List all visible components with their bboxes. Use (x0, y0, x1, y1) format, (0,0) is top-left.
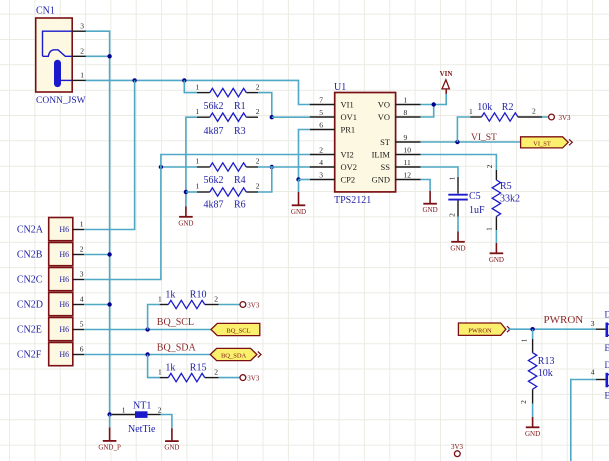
svg-text:TPS2121: TPS2121 (334, 195, 371, 206)
port VI_ST (521, 137, 573, 148)
svg-text:2: 2 (256, 82, 260, 91)
svg-text:1: 1 (404, 95, 408, 104)
svg-text:2: 2 (214, 295, 218, 304)
svg-text:2: 2 (214, 368, 218, 377)
pin 3 of CN2C (73, 270, 84, 280)
pin 3 of Q (cut off) (591, 319, 606, 329)
wire to R1 pin1 (184, 80, 197, 92)
svg-text:2: 2 (485, 164, 494, 168)
wire SS to C5 (421, 167, 458, 177)
svg-text:H6: H6 (59, 325, 69, 334)
pin 1 of CN1 (72, 71, 86, 81)
svg-text:ST: ST (380, 137, 391, 147)
svg-text:1: 1 (469, 107, 473, 116)
svg-text:1k: 1k (165, 290, 175, 301)
svg-text:D: D (605, 360, 609, 370)
wire R2 pin2 to 3V3 (542, 116, 548, 118)
net-tie NT1 (112, 401, 162, 435)
junction (159, 165, 163, 169)
pin 4 of CN2D (73, 295, 84, 305)
svg-text:R10: R10 (190, 290, 207, 301)
junction GND_P node (107, 412, 111, 416)
connector CN2A H6 (17, 218, 73, 241)
power 3V3 (240, 302, 260, 310)
svg-text:BQ_SCL: BQ_SCL (226, 328, 250, 335)
svg-text:PWRON: PWRON (544, 314, 584, 326)
junction (530, 327, 534, 331)
pin 2 of CN2B (73, 245, 84, 255)
svg-text:4: 4 (591, 368, 595, 377)
wire VO pin8 join (421, 105, 434, 118)
connector CN2D H6 (17, 293, 73, 316)
wire VO pin1 to VIN (421, 94, 447, 105)
svg-text:4k87: 4k87 (204, 200, 224, 211)
wire R10 pin1 to BQ_SCL (148, 305, 160, 330)
junction (132, 78, 136, 82)
svg-text:2: 2 (80, 245, 84, 254)
svg-text:4: 4 (80, 295, 84, 304)
svg-text:3V3: 3V3 (247, 375, 260, 383)
port BQ_SDA (210, 348, 261, 360)
svg-text:10k: 10k (477, 102, 492, 113)
svg-text:CN2E: CN2E (17, 325, 42, 336)
svg-text:OV2: OV2 (341, 162, 358, 172)
svg-text:2: 2 (80, 47, 84, 56)
svg-text:CN2D: CN2D (17, 300, 43, 311)
svg-text:CN2F: CN2F (17, 350, 42, 361)
pin 3 CP2 of U1 (310, 170, 355, 184)
wire CN1 pin3 to GND_P rail (86, 31, 110, 414)
svg-text:H6: H6 (59, 250, 69, 259)
svg-text:2: 2 (256, 182, 260, 191)
ground (450, 232, 465, 253)
ground (423, 191, 438, 214)
svg-text:CN1: CN1 (36, 6, 55, 17)
svg-text:H6: H6 (59, 275, 69, 284)
junction (145, 352, 149, 356)
port BQ_SCL (211, 323, 260, 335)
wire pin4 down to sheet edge (571, 380, 596, 461)
wire NT1 pin1 to GND_P (109, 415, 111, 428)
svg-text:ILIM: ILIM (372, 150, 391, 160)
svg-text:H6: H6 (59, 300, 69, 309)
svg-text:SS: SS (381, 162, 391, 172)
svg-text:R5: R5 (500, 181, 512, 192)
junction (455, 140, 459, 144)
wire R6 pin1 (186, 191, 197, 193)
svg-text:R1: R1 (234, 101, 246, 112)
svg-text:1: 1 (520, 338, 529, 342)
svg-text:R6: R6 (234, 200, 246, 211)
svg-text:1: 1 (196, 182, 200, 191)
svg-text:VI_ST: VI_ST (471, 133, 497, 143)
wire PWRON net (508, 328, 596, 330)
junction (296, 177, 300, 181)
svg-text:BQ_SCL: BQ_SCL (157, 317, 194, 328)
connector CN2E H6 (17, 318, 73, 341)
wire R15 pin1 to BQ_SDA (148, 355, 160, 378)
wire R15 pin2 to 3V3 (219, 377, 240, 379)
svg-text:GND: GND (291, 208, 306, 216)
resistor R5 33k2 (485, 164, 521, 231)
svg-text:6: 6 (319, 120, 323, 129)
svg-text:CN2A: CN2A (17, 225, 44, 236)
svg-text:4k87: 4k87 (204, 126, 224, 137)
pin 4 OV2 of U1 (310, 158, 357, 172)
pin 6 of CN2F (73, 345, 84, 355)
svg-text:VO: VO (378, 112, 390, 122)
svg-text:R2: R2 (502, 102, 514, 113)
svg-text:R3: R3 (234, 126, 246, 137)
svg-text:R15: R15 (190, 363, 207, 374)
svg-text:VI2: VI2 (341, 150, 354, 160)
svg-text:1: 1 (196, 82, 200, 91)
pin 2 VI2 of U1 (310, 145, 354, 159)
svg-text:2: 2 (256, 107, 260, 116)
svg-text:56k2: 56k2 (204, 101, 224, 112)
resistor R6 4k87 (196, 182, 260, 211)
connector CN1 CONN_JSW (36, 6, 86, 107)
svg-text:33k2: 33k2 (500, 193, 520, 204)
op-amp U1 TPS2121 body (334, 82, 396, 206)
wire NT1 pin2 to GND (161, 415, 172, 429)
wire R10 pin2 to 3V3 (219, 304, 240, 306)
wire R3 pin1 to GND rail (186, 117, 197, 206)
svg-text:2: 2 (532, 107, 536, 116)
wire ILIM to R5 (421, 155, 497, 171)
svg-text:6: 6 (80, 345, 84, 354)
wire BQ_SCL net (84, 329, 211, 331)
resistor R1 56k2 (196, 82, 260, 112)
svg-text:2: 2 (158, 406, 162, 415)
svg-text:2: 2 (448, 213, 457, 217)
junction (145, 327, 149, 331)
pin 11 SS of U1 (381, 158, 421, 172)
svg-text:11: 11 (404, 158, 411, 167)
pin 5 of CN2E (73, 320, 84, 330)
wire PR1 down to CP2 (299, 130, 310, 180)
svg-text:3: 3 (319, 170, 323, 179)
svg-text:OV1: OV1 (341, 112, 358, 122)
svg-text:9: 9 (404, 133, 408, 142)
svg-text:1k: 1k (165, 363, 175, 374)
svg-text:10: 10 (404, 145, 412, 154)
wire R1 pin2 down (258, 93, 272, 118)
resistor R13 10k (519, 338, 554, 404)
transistor Q upper (cut off at edge) (605, 310, 609, 354)
resistor R4 56k2 (196, 157, 260, 187)
pin 7 VI1 of U1 (310, 95, 354, 109)
svg-text:CONN_JSW: CONN_JSW (36, 96, 86, 106)
ground (291, 192, 306, 216)
svg-text:GND_P: GND_P (98, 443, 121, 451)
connector CN2B H6 (17, 243, 73, 266)
svg-text:10k: 10k (538, 368, 553, 379)
pin 4 of Q (cut off) (591, 368, 606, 380)
svg-text:CN2C: CN2C (17, 275, 43, 286)
pin 1 VO of U1 (378, 95, 421, 109)
svg-text:56k2: 56k2 (204, 175, 224, 186)
ground (178, 207, 193, 228)
wire ST net (421, 141, 521, 143)
svg-text:D: D (605, 310, 609, 320)
wire OV1 net to U1 pin5 (272, 116, 310, 118)
svg-text:GND: GND (164, 444, 179, 452)
svg-text:U1: U1 (334, 82, 346, 93)
svg-text:BQ_SDA: BQ_SDA (221, 353, 247, 360)
svg-text:1: 1 (485, 227, 494, 231)
svg-text:1: 1 (448, 176, 457, 180)
svg-text:R4: R4 (234, 175, 246, 186)
junction (182, 78, 186, 82)
svg-text:3V3: 3V3 (559, 114, 572, 122)
resistor R15 1k (158, 363, 219, 382)
junction (270, 115, 274, 119)
svg-text:2: 2 (519, 400, 528, 404)
pin 10 ILIM of U1 (372, 145, 421, 159)
svg-text:PR1: PR1 (341, 125, 356, 135)
resistor R2 10k (469, 102, 542, 121)
svg-text:1uF: 1uF (469, 205, 485, 216)
svg-text:CN2B: CN2B (17, 250, 43, 261)
svg-text:5: 5 (80, 320, 84, 329)
wire C5 to gnd (457, 217, 459, 232)
svg-text:5: 5 (319, 108, 323, 117)
svg-text:GND: GND (489, 256, 504, 264)
svg-text:BQ_SDA: BQ_SDA (157, 343, 197, 354)
svg-text:1: 1 (80, 71, 84, 80)
svg-text:3: 3 (80, 22, 84, 31)
svg-text:GND: GND (450, 244, 465, 252)
svg-text:2: 2 (319, 145, 323, 154)
wire CN2C pin3 to U1 VI2 (84, 155, 310, 280)
wire CN2D pin4 (84, 304, 110, 306)
power port VIN (440, 70, 453, 94)
pin 8 VO of U1 (378, 108, 421, 122)
svg-text:1: 1 (196, 157, 200, 166)
wire VIN net CN1 pin1 to U1 VI1 (86, 80, 310, 104)
svg-text:4: 4 (319, 158, 323, 167)
resistor R3 4k87 (196, 107, 260, 137)
svg-text:VI_ST: VI_ST (533, 140, 551, 147)
svg-text:3V3: 3V3 (451, 443, 464, 451)
power 3V3 (549, 114, 571, 122)
svg-text:H6: H6 (59, 350, 69, 359)
wire OV2 net to U1 pin4 (258, 166, 310, 168)
svg-text:1: 1 (80, 220, 84, 229)
svg-text:1: 1 (196, 107, 200, 116)
pin 5 OV1 of U1 (310, 108, 357, 122)
wire to CP2 pin (299, 179, 310, 181)
wire VI2 to R4 pin1 (161, 166, 197, 168)
transistor Q lower (cut off at edge) (605, 360, 609, 401)
resistor R10 1k (158, 290, 219, 309)
wire BQ_SDA net (84, 354, 210, 356)
connector CN2C H6 (17, 268, 73, 291)
junction (107, 302, 111, 306)
junction (432, 102, 436, 106)
svg-text:1: 1 (122, 406, 126, 415)
wire up to R2 pin1 (457, 117, 470, 142)
wire CP2 to gnd (298, 180, 300, 193)
svg-text:H6: H6 (59, 225, 69, 234)
pin 6 PR1 of U1 (310, 120, 355, 134)
power 3V3 bottom (451, 443, 464, 457)
power 3V3 (240, 375, 260, 383)
svg-text:E: E (605, 390, 609, 400)
wire CN2B pin2 (84, 254, 110, 256)
svg-text:R13: R13 (538, 356, 555, 367)
svg-text:VO: VO (378, 100, 390, 110)
pin 12 GND of U1 (372, 170, 421, 184)
svg-text:GND: GND (423, 206, 438, 214)
svg-text:2: 2 (256, 157, 260, 166)
junction (270, 165, 274, 169)
wire U1 GND pin12 (421, 180, 431, 192)
svg-text:7: 7 (319, 95, 323, 104)
svg-text:8: 8 (404, 108, 408, 117)
svg-text:NT1: NT1 (133, 401, 151, 412)
junction (107, 54, 111, 58)
svg-text:VI1: VI1 (341, 100, 354, 110)
wire PWRON to R13 (532, 329, 534, 339)
junction (107, 252, 111, 256)
pin 9 ST of U1 (380, 133, 421, 147)
wire R6 pin2 up to OV2 (258, 167, 272, 192)
port PWRON (458, 323, 510, 335)
pin 2 of CN1 (72, 47, 86, 57)
svg-text:3: 3 (591, 319, 595, 328)
svg-text:3: 3 (80, 270, 84, 279)
wire CN1 pin2 (86, 55, 110, 57)
svg-text:CP2: CP2 (341, 175, 356, 185)
svg-text:GND: GND (525, 430, 540, 438)
svg-text:PWRON: PWRON (468, 327, 492, 334)
pin 1 of CN2A (73, 220, 84, 230)
svg-text:E: E (605, 343, 609, 353)
svg-text:GND: GND (372, 175, 390, 185)
junction (184, 190, 188, 194)
wire R13 to gnd (532, 404, 534, 418)
ground (525, 417, 540, 438)
svg-text:VIN: VIN (440, 70, 453, 78)
connector CN2F H6 (17, 343, 73, 366)
wire CN2A pin1 to VIN net (84, 80, 135, 229)
svg-text:3V3: 3V3 (247, 302, 260, 310)
svg-text:1: 1 (158, 295, 162, 304)
ground (489, 243, 504, 264)
ground GND_P (98, 428, 121, 452)
svg-text:12: 12 (404, 170, 412, 179)
svg-text:1: 1 (158, 368, 162, 377)
svg-text:GND: GND (178, 219, 193, 227)
svg-text:NetTie: NetTie (128, 424, 156, 435)
svg-text:C5: C5 (469, 191, 481, 202)
pin 3 of CN1 (72, 22, 86, 32)
capacitor C5 1uF (448, 176, 486, 217)
ground (164, 428, 179, 451)
wire R5 to gnd (495, 230, 497, 243)
